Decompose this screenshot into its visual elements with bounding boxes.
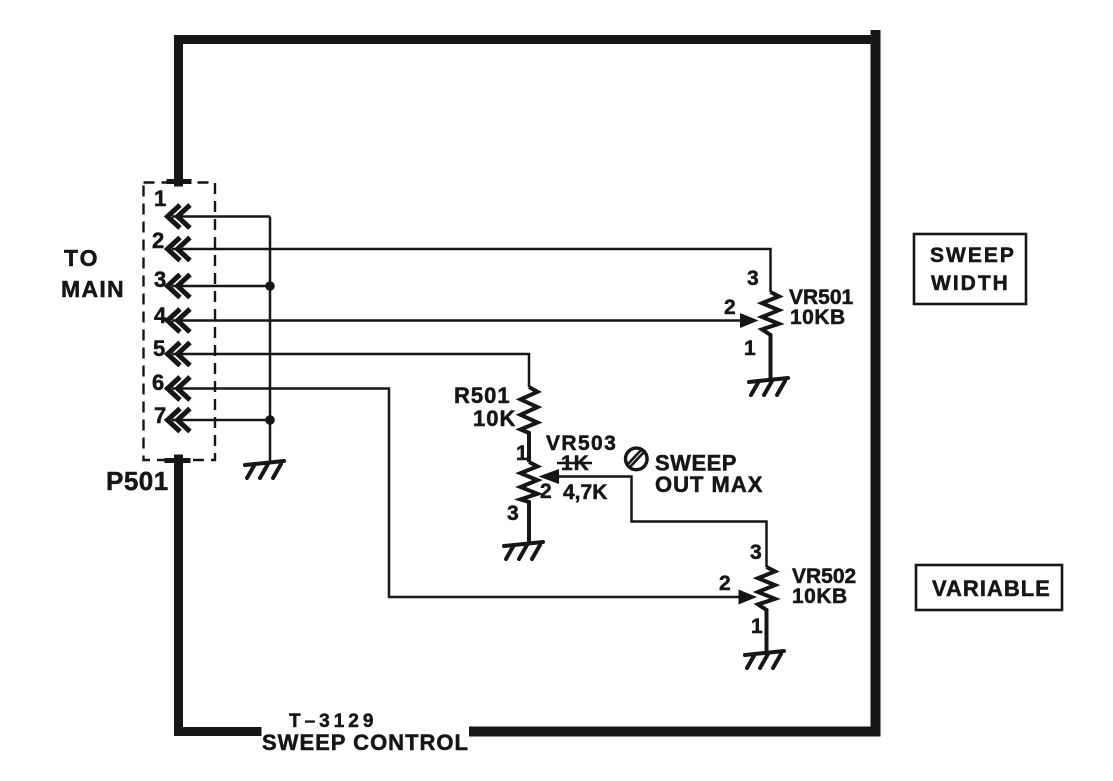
- VR503 wiper arrow (points left): [539, 469, 560, 484]
- potentiometer VR503: [521, 462, 538, 543]
- ground symbol (VR503): [504, 542, 543, 559]
- svg-text:6: 6: [152, 370, 164, 395]
- board outline frame (T-3129 module border): [167, 35, 876, 732]
- svg-text:P501: P501: [106, 466, 169, 496]
- junction dot pin7/ground rail: [265, 415, 275, 425]
- label box VARIABLE: [916, 565, 1062, 610]
- svg-text:4,7K: 4,7K: [563, 481, 607, 504]
- svg-text:2: 2: [724, 296, 736, 319]
- wire pin1 to ground rail: [172, 215, 270, 218]
- svg-text:2: 2: [719, 572, 731, 595]
- svg-text:3: 3: [750, 541, 762, 564]
- svg-text:10KB: 10KB: [792, 585, 848, 608]
- svg-text:VARIABLE: VARIABLE: [932, 576, 1051, 601]
- ground symbol (P501 ground rail): [245, 461, 284, 478]
- svg-text:4: 4: [154, 303, 167, 328]
- svg-text:1: 1: [751, 615, 763, 638]
- wire pin6 to VR502 wiper: [172, 389, 742, 598]
- label box SWEEP WIDTH: [914, 234, 1026, 304]
- potentiometer VR502: [758, 567, 775, 652]
- svg-text:R501: R501: [454, 383, 511, 408]
- wire pin3 to ground rail: [172, 285, 270, 288]
- junction dot pin3/ground rail: [265, 281, 275, 291]
- svg-text:2: 2: [152, 228, 164, 253]
- svg-text:10K: 10K: [473, 406, 516, 431]
- svg-text:10KB: 10KB: [790, 306, 846, 329]
- wire VR503 wiper to VR502 pin3: [556, 477, 767, 568]
- svg-text:3: 3: [507, 502, 519, 525]
- svg-text:2: 2: [540, 480, 552, 503]
- svg-text:T–3129: T–3129: [289, 711, 377, 732]
- wire pin4 to VR501 wiper: [172, 319, 741, 322]
- svg-text:1: 1: [154, 186, 166, 211]
- svg-text:OUT MAX: OUT MAX: [655, 472, 763, 497]
- svg-text:5: 5: [153, 336, 165, 361]
- resistor R501: [521, 387, 538, 462]
- VR501 wiper arrow (points right): [740, 313, 759, 328]
- ground symbol (VR502): [745, 651, 784, 668]
- svg-text:3: 3: [154, 267, 166, 292]
- svg-text:MAIN: MAIN: [61, 276, 125, 302]
- connector P501 dashed outline: [144, 183, 216, 461]
- svg-text:7: 7: [154, 403, 166, 428]
- svg-text:3: 3: [747, 267, 759, 290]
- svg-text:1: 1: [744, 337, 756, 360]
- svg-text:WIDTH: WIDTH: [931, 272, 1010, 295]
- trimmer adjustment symbol (screwdriver slot): [626, 448, 648, 470]
- svg-text:SWEEP CONTROL: SWEEP CONTROL: [262, 730, 469, 755]
- ground rail wire (vertical): [269, 217, 272, 463]
- wire pin5 to R501 top: [172, 354, 529, 387]
- wire pin7 to ground rail: [172, 419, 270, 422]
- wire pin2 to VR501 pin3: [172, 249, 771, 292]
- svg-text:1: 1: [516, 442, 528, 465]
- svg-text:SWEEP: SWEEP: [930, 244, 1016, 267]
- VR502 wiper arrow (points right): [739, 590, 758, 605]
- ground symbol (VR501): [749, 378, 788, 395]
- potentiometer VR501: [762, 292, 779, 379]
- svg-text:TO: TO: [64, 245, 100, 271]
